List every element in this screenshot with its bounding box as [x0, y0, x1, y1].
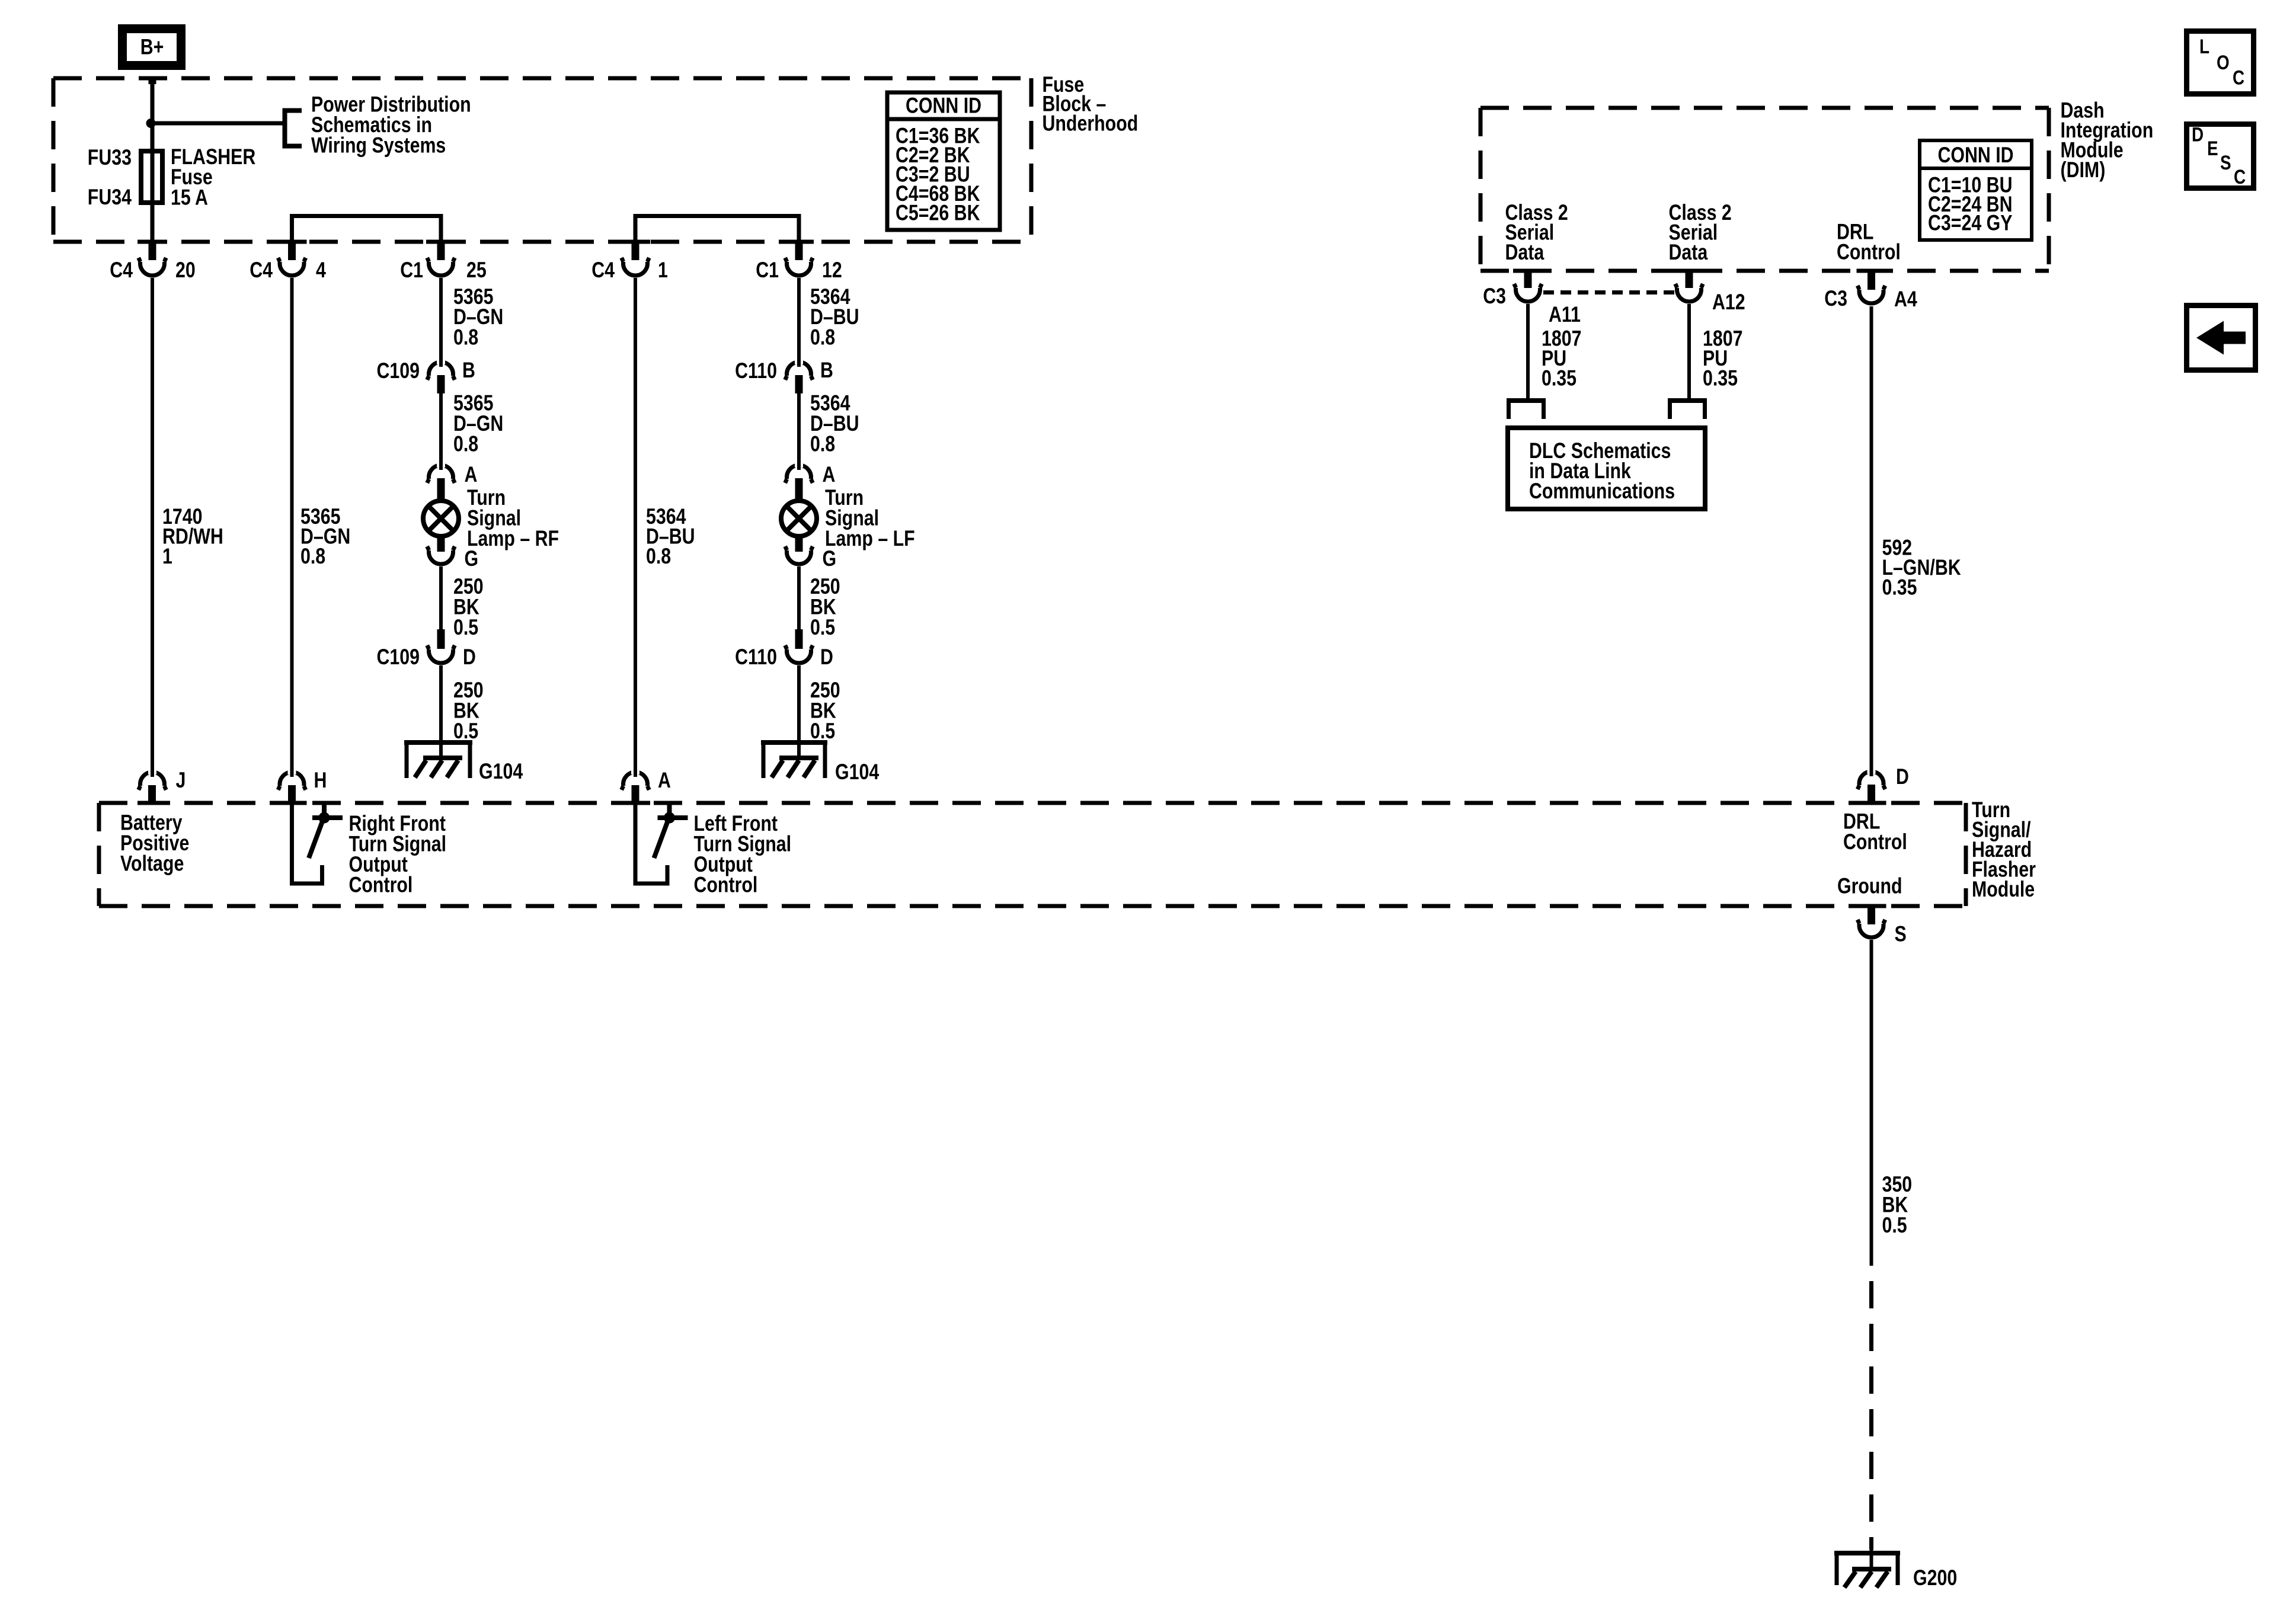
DLC connector bracket (A12) — [1668, 401, 1707, 419]
wire A4 to D — [1870, 306, 1873, 773]
connector C3 pin A11 — [1514, 271, 1542, 302]
label 250 BK 0.5 — [810, 574, 840, 640]
connector C3 pin A4 — [1857, 271, 1885, 303]
svg-text:0.35: 0.35 — [1703, 366, 1738, 391]
svg-text:S: S — [1895, 922, 1907, 947]
wire G to C109-D — [439, 566, 443, 630]
label 5364 D-BU 0.8 — [810, 284, 859, 350]
svg-text:4: 4 — [316, 258, 326, 283]
svg-text:C5=26 BK: C5=26 BK — [896, 201, 980, 226]
svg-text:0.8: 0.8 — [453, 325, 478, 350]
DLC Schematics box — [1508, 428, 1705, 509]
label Left Front Turn Signal Output Control — [694, 811, 792, 897]
ground G104 (RF) — [404, 742, 472, 778]
svg-text:A11: A11 — [1549, 302, 1581, 327]
connector S of flasher module — [1857, 906, 1885, 937]
label 250 BK 0.5 — [453, 678, 484, 744]
CONN ID table fuse block — [885, 92, 1002, 230]
node junction dot — [146, 119, 156, 128]
label Class 2 Serial Data (1) — [1505, 200, 1568, 265]
label 1807 PU 0.35 — [1542, 327, 1581, 391]
wire S ground dashed part — [1869, 1281, 1873, 1550]
svg-text:B: B — [820, 358, 833, 383]
dash segments at connector crossings on fuse block bottom border — [137, 240, 814, 244]
svg-text:Control: Control — [694, 873, 758, 898]
label Class 2 Serial Data (2) — [1669, 200, 1732, 265]
connector C4 pin 20 — [139, 242, 167, 276]
wire C4-20 to J — [151, 278, 154, 774]
svg-text:C4: C4 — [591, 258, 615, 283]
svg-text:G: G — [823, 546, 837, 571]
connector C1 pin 12 — [785, 242, 813, 276]
connector C110 pin D — [785, 629, 813, 663]
svg-text:D: D — [2192, 123, 2204, 146]
svg-text:D: D — [463, 645, 476, 670]
svg-text:G: G — [465, 546, 479, 571]
svg-text:0.5: 0.5 — [810, 719, 835, 744]
connector pin A of RF lamp — [427, 452, 455, 500]
label Power Distribution Schematics in Wiring Systems — [311, 92, 471, 158]
svg-text:A12: A12 — [1712, 290, 1745, 315]
label Right Front Turn Signal Output Control — [349, 811, 447, 897]
CONN ID table DIM — [1918, 140, 2033, 240]
connector C1 pin 25 — [427, 242, 455, 276]
svg-text:Data: Data — [1505, 240, 1545, 265]
wire C110-D to G104 — [797, 665, 801, 758]
svg-text:Wiring Systems: Wiring Systems — [311, 133, 446, 158]
label 350 BK 0.5 — [1882, 1172, 1913, 1238]
svg-text:CONN ID: CONN ID — [1937, 143, 2013, 168]
wire C4-1 to A — [634, 278, 637, 774]
svg-text:0.5: 0.5 — [453, 719, 478, 744]
svg-text:J: J — [176, 768, 186, 793]
svg-text:C3: C3 — [1483, 284, 1506, 309]
label 5364 D-BU 0.8 — [646, 504, 695, 569]
svg-text:G104: G104 — [835, 760, 879, 785]
label DRL Control (module) — [1843, 809, 1907, 854]
svg-text:A4: A4 — [1894, 287, 1917, 312]
svg-text:C1: C1 — [756, 258, 779, 283]
svg-text:Voltage: Voltage — [120, 852, 184, 876]
wire loop C4-4 to C1-25 inside fuse block — [292, 216, 442, 245]
wire C1-25 to C109-B — [439, 278, 443, 365]
label 592 L-GN/BK 0.35 — [1882, 536, 1962, 600]
svg-text:Underhood: Underhood — [1043, 111, 1139, 136]
label 250 BK 0.5 — [453, 574, 484, 640]
svg-text:0.5: 0.5 — [1882, 1213, 1907, 1238]
wire S ground solid part — [1870, 940, 1873, 1266]
label Turn Signal/Hazard Flasher Module — [1972, 798, 2036, 902]
label 1740 RD/WH 1 — [162, 504, 223, 569]
connector pin A12 — [1675, 271, 1703, 302]
svg-text:B: B — [462, 358, 475, 383]
svg-text:B+: B+ — [140, 35, 164, 60]
svg-text:C3=24 GY: C3=24 GY — [1928, 211, 2013, 236]
svg-text:Control: Control — [1837, 240, 1901, 265]
switch Right Front output (internal) — [292, 804, 343, 884]
DLC connector bracket (A11) — [1507, 401, 1546, 419]
wire C4-4 to H — [290, 278, 294, 774]
dash segments at module border crossings — [137, 803, 1886, 906]
svg-text:C: C — [2234, 165, 2246, 188]
svg-text:C1: C1 — [400, 258, 423, 283]
svg-text:(DIM): (DIM) — [2061, 158, 2106, 183]
connector C4 pin 4 — [278, 242, 306, 276]
svg-text:15 A: 15 A — [171, 185, 208, 210]
connector pin G of RF lamp — [429, 550, 453, 564]
svg-text:Lamp – LF: Lamp – LF — [825, 526, 915, 551]
svg-text:Control: Control — [349, 873, 413, 898]
switch Left Front output (internal) — [635, 804, 688, 884]
wire C109-D to G104 — [439, 665, 443, 758]
lamp Turn Signal Lamp LF — [781, 501, 817, 552]
label 5364 D-BU 0.8 — [810, 391, 859, 457]
connector D of flasher module — [1857, 758, 1885, 805]
svg-text:Module: Module — [1972, 877, 2035, 902]
svg-text:C3: C3 — [1824, 286, 1847, 311]
label 1807 PU 0.35 — [1703, 327, 1742, 391]
svg-text:0.8: 0.8 — [646, 544, 671, 569]
label DLC Schematics in Data Link Communications — [1529, 438, 1675, 504]
svg-text:0.8: 0.8 — [300, 544, 325, 569]
Dash Integration Module dashed box — [1480, 108, 2049, 271]
connector pin A of LF lamp — [785, 452, 813, 500]
svg-text:G200: G200 — [1913, 1566, 1957, 1590]
svg-text:C110: C110 — [735, 359, 777, 383]
LOC box — [2187, 31, 2254, 94]
svg-text:A: A — [658, 768, 671, 793]
wire C110-B to lamp A — [797, 393, 801, 469]
dashed serial data wire A11 to A12 — [1543, 290, 1675, 295]
label Turn Signal Lamp - RF — [467, 485, 559, 551]
lamp Turn Signal Lamp RF — [423, 501, 459, 552]
bracket Power Distribution — [283, 108, 302, 149]
svg-text:Control: Control — [1843, 830, 1907, 854]
svg-text:D: D — [820, 645, 833, 670]
wire junction to bracket — [151, 121, 283, 126]
svg-text:Data: Data — [1669, 240, 1709, 265]
label 5365 D-GN 0.8 — [453, 284, 503, 350]
fuse block dashed box (Fuse Block - Underhood) — [53, 78, 1031, 242]
svg-text:C109: C109 — [376, 645, 420, 670]
svg-text:C109: C109 — [376, 359, 420, 383]
svg-text:O: O — [2217, 51, 2230, 73]
svg-text:H: H — [314, 768, 327, 793]
ground G200 — [1834, 1553, 1900, 1587]
dash segments at DIM border crossings — [1513, 269, 1886, 273]
back arrow box — [2187, 306, 2256, 370]
wire loop C4-1 to C1-12 inside fuse block — [635, 216, 799, 245]
label 5365 D-GN 0.8 — [453, 391, 503, 457]
ground G104 (LF) — [761, 742, 827, 778]
label FLASHER Fuse 15 A — [171, 145, 255, 210]
wire C1-12 to C110-B — [797, 278, 801, 365]
svg-text:12: 12 — [822, 258, 842, 283]
svg-text:Ground: Ground — [1837, 874, 1902, 899]
connector C110 pin B — [785, 349, 813, 393]
label DRL Control (DIM) — [1837, 220, 1901, 265]
wire A11 to DLC — [1526, 304, 1530, 398]
svg-text:0.5: 0.5 — [453, 615, 478, 640]
svg-text:0.8: 0.8 — [810, 325, 835, 350]
connector C109 pin B — [427, 349, 455, 393]
DESC box — [2187, 123, 2254, 188]
connector A of flasher module — [622, 759, 650, 805]
svg-text:Communications: Communications — [1529, 479, 1675, 504]
fuse FU33/FU34 FLASHER 15A — [141, 123, 162, 242]
svg-text:0.8: 0.8 — [453, 432, 478, 457]
svg-text:C: C — [2233, 66, 2244, 89]
svg-text:25: 25 — [466, 258, 487, 283]
svg-text:D: D — [1896, 764, 1909, 789]
svg-text:CONN ID: CONN ID — [906, 94, 981, 119]
svg-text:FU33: FU33 — [88, 145, 132, 170]
svg-text:L: L — [2199, 35, 2209, 57]
label Dash Integration Module (DIM) — [2061, 98, 2154, 183]
svg-text:S: S — [2220, 151, 2231, 174]
connector C4 pin 1 — [622, 242, 650, 276]
Turn Signal/Hazard Flasher Module dashed box — [99, 803, 1966, 906]
svg-text:Lamp – RF: Lamp – RF — [467, 526, 559, 551]
svg-text:G104: G104 — [479, 759, 523, 784]
connector J of flasher module — [139, 759, 167, 805]
svg-text:C4: C4 — [250, 258, 273, 283]
svg-text:A: A — [823, 462, 836, 487]
svg-text:E: E — [2207, 137, 2218, 159]
svg-text:C110: C110 — [735, 645, 777, 670]
svg-text:0.8: 0.8 — [810, 432, 835, 457]
label Turn Signal Lamp - LF — [825, 485, 915, 551]
svg-text:1: 1 — [162, 544, 172, 569]
label Fuse Block - Underhood — [1043, 72, 1139, 136]
label 250 BK 0.5 — [810, 678, 840, 744]
svg-text:0.35: 0.35 — [1542, 366, 1576, 391]
connector C109 pin D — [427, 629, 455, 663]
label 5365 D-GN 0.8 — [300, 504, 350, 569]
svg-text:A: A — [465, 462, 478, 487]
wire G to C110-D — [797, 566, 801, 630]
connector pin G of LF lamp — [786, 550, 811, 564]
connector H of flasher module — [278, 759, 306, 805]
B+ terminal box — [123, 29, 181, 66]
svg-text:20: 20 — [175, 258, 196, 283]
svg-text:1: 1 — [658, 258, 668, 283]
wire A12 to DLC — [1687, 304, 1691, 398]
svg-text:0.35: 0.35 — [1882, 575, 1917, 600]
svg-text:FU34: FU34 — [88, 185, 132, 210]
wire C109-B to lamp A — [439, 393, 443, 469]
label Battery Positive Voltage — [120, 811, 189, 876]
wire B+ down to fuse — [149, 76, 156, 151]
svg-text:0.5: 0.5 — [810, 615, 835, 640]
svg-text:C4: C4 — [110, 258, 133, 283]
